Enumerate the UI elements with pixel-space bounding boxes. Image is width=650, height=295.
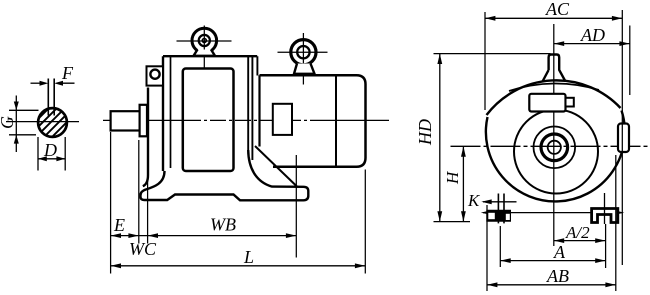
dimension D extension lines [38,137,65,171]
svg-text:E: E [113,215,125,235]
svg-text:AD: AD [580,25,605,45]
dimension H [461,146,466,221]
dimension A [500,258,605,263]
dimension HD [437,54,442,222]
dimension K leader [481,199,516,204]
hatching [7,98,91,150]
extension HD top [434,53,551,55]
dimension AB [487,282,616,287]
extension AC right long [621,10,623,265]
extension feet bottom left [434,221,471,223]
shaft section circle [38,108,67,137]
dimension F [31,81,75,86]
gearbox window [183,69,234,172]
dimension G line and arrows [14,96,19,153]
svg-text:AC: AC [545,0,570,19]
svg-text:WC: WC [129,239,157,259]
extension AB right [615,155,617,291]
svg-text:H: H [443,170,462,185]
dimension row E WC WB [111,233,297,238]
extension A left (left foot slot center) [499,226,501,267]
shaft collar [140,105,147,137]
dimension AD [554,41,630,46]
shaft [111,111,140,130]
extension line motor right L [364,170,366,274]
keyway slot lines [48,79,54,116]
motor body [260,75,366,167]
end view vertical centerline [553,24,555,246]
bolt boss box [147,66,164,85]
gusset diagonal [255,146,298,187]
extension line foot right WB [295,155,297,258]
bearing circle [534,127,576,169]
middle circle [514,110,598,194]
eyebolt U-ring gearbox [177,26,232,69]
extension line shaft end [110,132,112,274]
extension line housing face WC [147,180,149,244]
dimension D line and arrows [38,156,65,161]
extension AB left [486,205,488,291]
gearbox right wall lines [248,56,257,160]
extension AC left [484,12,486,110]
outer housing circle with flat top [486,111,625,202]
svg-text:F: F [61,63,74,83]
dimension G extension lines [9,110,39,135]
svg-text:AB: AB [546,266,569,286]
dimension row L [111,263,366,268]
svg-text:G: G [0,116,17,129]
baseline through feet [481,210,625,215]
end view horizontal centerline [451,145,650,147]
left foot slot lines [498,194,504,224]
svg-text:K: K [467,191,481,210]
svg-text:A: A [553,242,566,262]
gearbox inner wall line left [170,56,172,168]
right side tab [618,124,629,153]
left foot (section, filled) [486,210,511,222]
eyebolt U-ring motor [278,33,328,85]
terminal box side [273,104,292,135]
top seam arc [509,83,599,91]
bolt circle [150,70,159,79]
shaft circle thick [541,134,568,161]
gearbox front plate [143,56,163,186]
flat top arc [487,80,621,115]
motor junction line [335,75,337,167]
terminal box tab [566,98,574,107]
gearbox body top edge [163,55,257,57]
eyebolt stem top [543,55,566,82]
svg-text:HD: HD [415,119,435,146]
side view centerline [103,119,185,121]
extension A/2 right (right foot slot center) [605,224,607,268]
shaft inner circle [548,141,561,154]
right foot slot centerline [604,193,606,224]
right foot channel [592,209,618,223]
dimension A/2 [554,238,606,243]
extension AD right [629,26,631,96]
extension line shaft shoulder [138,140,140,244]
terminal box end view [529,94,565,112]
svg-text:WB: WB [210,215,236,235]
dimension AC [485,16,622,21]
svg-text:L: L [243,247,254,267]
node shaft-section centerline horizontal [6,121,79,123]
svg-text:D: D [43,140,57,160]
motor left edge [258,75,260,146]
gearbox base [141,150,309,200]
svg-text:A/2: A/2 [565,223,590,242]
